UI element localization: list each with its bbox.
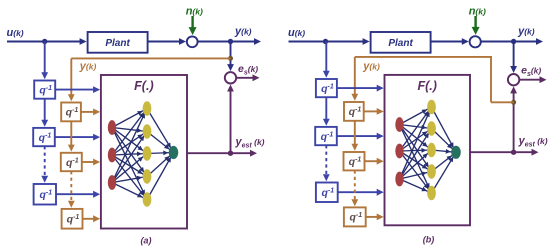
svg-text:n(k): n(k) [186,6,203,18]
neural net connections hidden-to-output (b) [432,107,457,193]
neuron hidden 5 (b) [427,186,436,200]
wire y(k) output (b) [481,38,543,45]
neural net connections input-to-hidden (b) [400,107,432,193]
label n(k) (a) [186,6,203,18]
svg-text:(b): (b) [423,235,435,245]
svg-text:y(k): y(k) [234,26,252,38]
wire feedback delay chain segment 2 (b) dashed [351,170,358,206]
tap arrow from feedback delay 1 to F (a) [81,109,100,116]
label n(k) (b) [469,6,486,18]
wire e_s(k) output arrow (b) [519,76,546,83]
summing junction noise (b) [470,36,481,47]
svg-text:y(k): y(k) [362,61,380,73]
tap arrow from input delay 3 to F (a) [56,191,100,198]
tap arrow from input delay 2 to F (b) [337,133,384,140]
tap arrow from input delay 1 to F (b) [337,85,384,92]
neuron hidden 3 (b) [427,143,436,157]
wire u junction down to delay 1 (b) [323,42,330,78]
neuron input 3 (b) [395,172,403,187]
label e_s(k) (b) [521,65,541,79]
tap arrow from input delay 3 to F (b) [338,189,384,196]
F(.) box (a) [101,75,187,229]
svg-text:u(k): u(k) [288,27,305,39]
node y_est junction (b) [511,150,516,155]
wire u(k) input (a) [7,38,87,45]
noise arrow n(k) (a) [189,16,197,35]
neuron input 1 (b) [395,117,403,132]
noise arrow n(k) (b) [472,16,480,35]
wire input delay chain segment 1 (b) [323,97,330,126]
delay block q^-1 input chain 1 (b) [316,79,337,97]
label u(k) (b) [288,27,305,39]
neuron hidden 1 (a) [143,101,152,115]
node feedback tap on y(k) branch (a) [228,56,233,61]
node feedback tap on y_est branch (b) [511,100,516,105]
wire y_est up to error sum (b) [510,86,517,152]
svg-text:y(k): y(k) [79,61,97,73]
neural net connections input-to-hidden (a) [112,109,147,200]
neuron input 3 (a) [108,175,116,190]
wire e_s(k) output arrow (a) [236,74,259,81]
wire input delay chain segment 2 (a) dashed [41,146,48,183]
svg-text:Plant: Plant [388,38,413,49]
wire plant to sum (b) [431,38,469,45]
summing junction error (a) [225,72,236,83]
node y(k) junction (b) [511,39,516,44]
delay block q^-1 feedback chain 2 (a) [61,153,82,171]
wire input delay chain segment 1 (a) [41,99,48,127]
delay block q^-1 input chain 3 (b) [316,183,338,203]
neuron input 2 (b) [395,144,403,159]
label y(k) (b) [517,26,535,38]
delay block q^-1 input chain 2 (b) [315,127,337,145]
neuron hidden 3 (a) [143,146,152,160]
label u(k) (a) [7,27,24,39]
delay block q^-1 feedback chain 2 (b) [344,152,365,170]
label y(k) (a) [234,26,252,38]
wire y_est feedback down (b) [351,57,358,101]
wire u(k) input (b) [289,38,370,45]
wire y(k) feedback horizontal (a) [71,57,230,59]
tap arrow from input delay 1 to F (a) [55,86,100,93]
neuron hidden 2 (b) [427,121,436,135]
delay block q^-1 input chain 3 (a) [34,184,56,205]
tap arrow from feedback delay 2 to F (b) [365,158,384,165]
tap arrow from feedback delay 3 to F (b) [366,214,384,221]
neural net connections hidden-to-output (a) [147,109,174,200]
svg-text:Plant: Plant [105,38,130,49]
summing junction noise (a) [187,36,198,47]
neuron output (b) [451,146,461,159]
svg-text:F(.): F(.) [134,79,153,93]
wire y_est feedback horizontal lower (b) [491,101,514,103]
tap arrow from feedback delay 2 to F (a) [82,159,100,166]
node u(k) junction (a) [42,39,47,44]
neuron input 1 (a) [108,120,116,135]
neuron hidden 4 (a) [143,169,152,183]
wire feedback delay chain segment 1 (a) [68,121,75,151]
svg-text:y(k): y(k) [517,26,535,38]
wire y(k) down to error sum (b) [510,42,517,74]
neuron hidden 4 (b) [427,164,436,178]
neuron output (a) [169,146,179,159]
neuron hidden 5 (a) [143,192,152,206]
node y(k) junction (a) [228,39,233,44]
svg-text:F(.): F(.) [417,79,436,93]
wire y(k) output (a) [198,38,261,45]
neuron input 2 (a) [108,148,116,163]
wire y(k) down to error sum (a) [227,42,234,72]
delay block q^-1 feedback chain 3 (a) [62,209,83,229]
delay block q^-1 feedback chain 3 (b) [344,207,366,226]
svg-text:u(k): u(k) [7,27,24,39]
wire input delay chain segment 2 (b) dashed [323,145,330,181]
label e_s(k) (a) [238,63,258,77]
svg-text:(a): (a) [141,236,152,246]
node u(k) junction (b) [323,39,328,44]
wire y_est(k) output (a) [187,150,257,157]
plant box (a) [88,32,148,53]
delay block q^-1 feedback chain 1 (a) [61,103,81,122]
caption (b) [423,235,435,245]
label y_est(k) (a) [235,136,265,150]
neuron hidden 1 (b) [427,100,436,114]
caption (a) [141,236,152,246]
label y_est(k) (b) [518,135,548,149]
delay block q^-1 feedback chain 1 (b) [344,102,364,121]
tap arrow from input delay 2 to F (a) [55,134,100,141]
wire feedback delay chain segment 2 (a) dashed [68,171,75,208]
delay block q^-1 input chain 2 (a) [33,128,55,146]
neuron hidden 2 (a) [143,124,152,138]
tap arrow from feedback delay 1 to F (b) [364,108,384,115]
summing junction error (b) [508,74,519,85]
wire u junction down to delay 1 (a) [41,42,48,80]
wire y_est(k) output (b) [470,149,539,156]
delay block q^-1 input chain 1 (a) [34,81,55,99]
node y_est junction (a) [228,151,233,156]
plant box (b) [371,32,431,53]
svg-text:n(k): n(k) [469,6,486,18]
label F(.) (b) [417,79,436,93]
label F(.) (a) [134,79,153,93]
label y(k) feedback (b) [362,61,380,73]
wire y(k) feedback down (a) [68,58,75,101]
wire plant to sum (a) [148,38,186,45]
wire y_est feedback vertical (b) [490,57,492,102]
tap arrow from feedback delay 3 to F (a) [83,215,101,222]
wire y_est feedback horizontal upper (b) [355,56,492,58]
wire feedback delay chain segment 1 (b) [351,121,358,151]
label y(k) feedback (a) [79,61,97,73]
wire y_est up to error sum (a) [227,85,234,154]
F(.) box (b) [385,75,471,225]
